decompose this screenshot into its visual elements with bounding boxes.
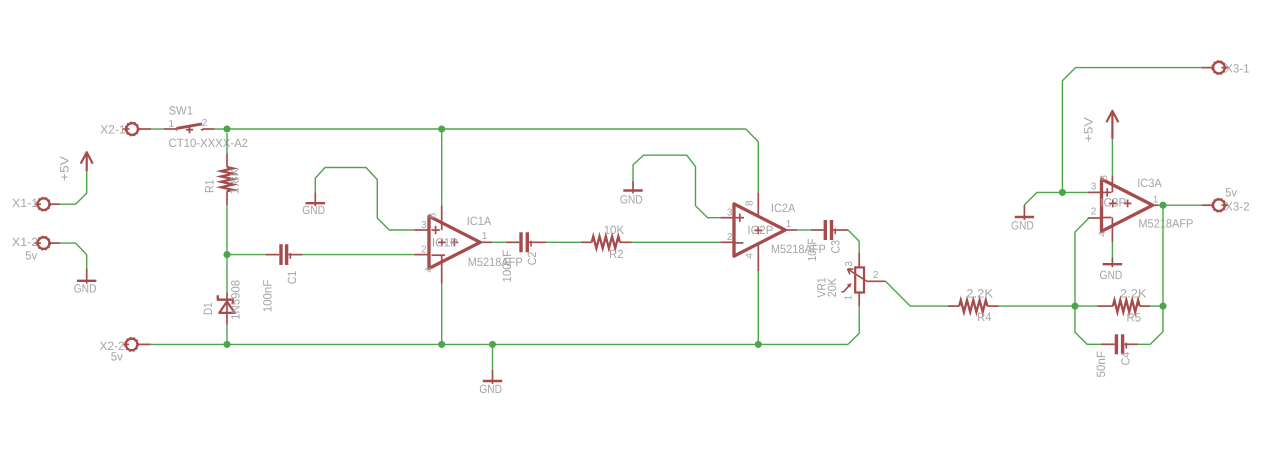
svg-text:C4: C4 — [1119, 352, 1133, 366]
supply +5V (X1-1) — [86, 152, 88, 171]
op-amp IC3A M5218AFP — [1102, 179, 1153, 231]
svg-text:4: 4 — [1098, 231, 1109, 237]
svg-text:IC3P: IC3P — [1100, 195, 1126, 209]
wire bottom bus — [151, 343, 848, 345]
resistor R1 1.8K — [221, 167, 233, 191]
svg-text:10K: 10K — [604, 223, 625, 237]
wire top bus to IC2A pin 8 — [746, 129, 759, 193]
pad X3-2 — [1213, 199, 1225, 211]
svg-text:R2: R2 — [609, 247, 624, 261]
svg-text:D1: D1 — [201, 302, 215, 315]
wire +5V to IC3A pin 8 — [1111, 139, 1113, 176]
capacitor C1 100nF — [266, 254, 279, 256]
svg-text:5v: 5v — [1225, 185, 1237, 199]
junction feedback node right — [1159, 303, 1166, 310]
svg-text:GND: GND — [1100, 268, 1123, 282]
svg-text:IC1P: IC1P — [432, 235, 458, 249]
svg-text:C1: C1 — [285, 270, 299, 284]
junction top bus at IC1A pin 8 — [438, 125, 445, 132]
wire C1 to IC1A pin 2 — [302, 254, 414, 256]
wire IC2A output to C3 — [797, 229, 811, 231]
wire node A to R1 — [226, 133, 228, 153]
wire VR1 wiper to R4 — [886, 281, 948, 306]
diode D1 1N5908 (zener) — [226, 293, 228, 300]
wire X2-1 to SW1 pin 1 — [151, 128, 164, 130]
wire pin 3 node to GND — [1024, 192, 1062, 205]
ground GND (IC2A pin 3 net) — [632, 181, 634, 193]
svg-text:M5218AFP: M5218AFP — [468, 255, 523, 269]
svg-text:1: 1 — [1153, 195, 1159, 206]
svg-text:8: 8 — [1099, 175, 1110, 181]
potentiometer VR1 20K — [858, 253, 860, 268]
svg-text:C3: C3 — [828, 240, 842, 254]
svg-text:1: 1 — [169, 119, 175, 130]
svg-text:2: 2 — [202, 118, 208, 129]
svg-text:2: 2 — [727, 232, 733, 243]
wire C4 to output node — [1138, 306, 1163, 344]
wire node B to C1 — [227, 254, 266, 256]
switch SW1 — [164, 128, 176, 130]
svg-text:C2: C2 — [525, 251, 539, 265]
svg-text:1: 1 — [786, 219, 792, 230]
svg-text:SW1: SW1 — [169, 104, 194, 118]
svg-text:3: 3 — [727, 207, 733, 218]
svg-text:4: 4 — [745, 253, 756, 259]
junction X3-1 / pin 3 node — [1059, 189, 1066, 196]
junction IC3A output node — [1159, 202, 1166, 209]
svg-text:GND: GND — [74, 282, 97, 296]
wire GND to IC1A pin 3 — [315, 168, 414, 231]
supply +5V (IC3A pin 8) — [1111, 111, 1113, 139]
svg-text:IC2P: IC2P — [747, 223, 773, 237]
power part IC1P (pins 8/4) — [441, 206, 443, 231]
wire X3-1 to IC3A pin 3 node — [1062, 68, 1201, 193]
wire top bus node A to IC1A pin 8 tap — [227, 128, 746, 130]
svg-text:20K: 20K — [825, 278, 839, 297]
capacitor C3 10nF — [811, 229, 824, 231]
svg-text:X3-2: X3-2 — [1225, 200, 1250, 214]
ground GND (bottom bus) — [492, 344, 494, 370]
svg-text:2: 2 — [421, 245, 427, 256]
wire X1-1 to +5V — [60, 171, 87, 204]
svg-text:+5V: +5V — [58, 156, 72, 181]
wire IC2A pin 4 to bottom bus — [757, 271, 759, 344]
wire IC3A pin 4 to GND — [1111, 242, 1113, 257]
svg-text:50nF: 50nF — [1094, 351, 1108, 378]
ground GND (IC1A pin 3 net) — [314, 192, 316, 206]
resistor R5 2.2K — [1097, 305, 1113, 307]
power part IC3P (pins 8/4) — [1111, 176, 1113, 192]
svg-text:4: 4 — [424, 267, 435, 273]
pad X2-2 — [126, 339, 138, 351]
svg-text:GND: GND — [302, 203, 325, 217]
svg-text:5v: 5v — [111, 350, 123, 364]
pad X1-1 — [38, 198, 50, 210]
capacitor C2 100nF — [506, 241, 520, 243]
ground GND (IC3A pin 3 net) — [1023, 205, 1025, 220]
svg-text:R1: R1 — [202, 179, 216, 193]
svg-text:X1-2: X1-2 — [12, 235, 39, 249]
svg-text:IC1A: IC1A — [467, 214, 492, 228]
op-amp IC1A M5218AFP — [429, 216, 480, 268]
svg-text:M5218AFP: M5218AFP — [1138, 217, 1193, 231]
svg-text:R4: R4 — [977, 310, 992, 324]
resistor R2 10K — [581, 241, 592, 243]
svg-text:1.8K: 1.8K — [227, 168, 241, 195]
junction bottom bus at GND stub — [489, 341, 496, 348]
svg-text:X3-1: X3-1 — [1225, 61, 1250, 75]
svg-text:GND: GND — [620, 192, 643, 206]
wire pin 3 node to IC3A pin 3 — [1062, 191, 1087, 193]
ground GND (IC3A pin 4) — [1111, 258, 1113, 268]
svg-text:3: 3 — [421, 220, 427, 231]
wire X1-2 to GND — [60, 243, 87, 268]
pad X1-2 — [38, 237, 50, 249]
resistor R4 2.2K — [948, 305, 959, 307]
wire R2 to IC2A pin 2 — [632, 241, 721, 243]
wire output node to feedback — [1162, 205, 1164, 306]
wire VR1 pin 1 to bottom bus — [848, 306, 859, 344]
wire R1 to node B / D1 — [226, 205, 228, 292]
wire IC3A output to X3-2 — [1159, 204, 1202, 206]
svg-text:8: 8 — [428, 212, 439, 218]
ground GND (X1-2) — [86, 269, 88, 284]
svg-text:1N5908: 1N5908 — [229, 280, 243, 320]
svg-text:R5: R5 — [1127, 310, 1142, 324]
svg-text:5v: 5v — [25, 249, 37, 263]
junction bottom bus at IC2A pin 4 — [755, 341, 762, 348]
svg-text:GND: GND — [479, 382, 502, 396]
capacitor C4 50nF — [1101, 343, 1115, 345]
svg-text:X1-1: X1-1 — [12, 196, 39, 210]
svg-text:10nF: 10nF — [805, 238, 819, 261]
wire D1 to X2-2 net — [226, 325, 228, 345]
node B junction (R1 / C1 / D1) — [223, 251, 230, 258]
wire SW1 pin 2 to node A — [215, 128, 227, 130]
svg-text:CT10-XXXX-A2: CT10-XXXX-A2 — [169, 136, 249, 150]
junction bottom bus at D1 — [223, 341, 230, 348]
power part IC2P (pins 8/4) — [757, 193, 759, 218]
wire GND to IC2A pin 3 — [633, 155, 720, 218]
op-amp IC2A M5218AFP — [734, 204, 785, 256]
wire IC1A output to C2 — [492, 241, 506, 243]
svg-text:2: 2 — [873, 270, 879, 281]
svg-text:8: 8 — [744, 200, 755, 206]
svg-text:+5V: +5V — [1081, 117, 1095, 142]
svg-text:1: 1 — [843, 294, 854, 300]
svg-text:2.2K: 2.2K — [1120, 287, 1147, 301]
svg-text:GND: GND — [1011, 219, 1034, 233]
pad X2-1 — [126, 123, 138, 135]
svg-text:100nF: 100nF — [261, 280, 275, 313]
svg-text:100nF: 100nF — [500, 250, 514, 283]
wire IC1A pin 4 to bottom bus — [441, 284, 443, 345]
svg-text:X2-1: X2-1 — [100, 122, 126, 136]
wire C3 to VR1 pin 3 — [848, 230, 859, 253]
wire IC3A pin 2 to feedback node — [1075, 218, 1089, 306]
svg-text:IC3A: IC3A — [1137, 176, 1162, 190]
svg-text:2: 2 — [1091, 206, 1097, 217]
wire C2 to R2 — [546, 241, 581, 243]
pad X3-1 — [1213, 62, 1225, 74]
svg-text:3: 3 — [1091, 181, 1097, 192]
svg-text:3: 3 — [844, 261, 855, 267]
wire R5 to output node — [1150, 305, 1163, 307]
junction feedback node left — [1071, 303, 1078, 310]
wire R4 to feedback node — [999, 305, 1098, 307]
svg-text:2.2K: 2.2K — [966, 287, 993, 301]
node A junction (SW1 / R1 / top bus) — [223, 125, 230, 132]
svg-text:IC2A: IC2A — [771, 201, 796, 215]
svg-text:1: 1 — [482, 231, 488, 242]
junction bottom bus at IC1A pin 4 — [438, 341, 445, 348]
wire IC1A pin 8 to top bus — [441, 129, 443, 206]
wire feedback node to C4 — [1075, 306, 1101, 344]
